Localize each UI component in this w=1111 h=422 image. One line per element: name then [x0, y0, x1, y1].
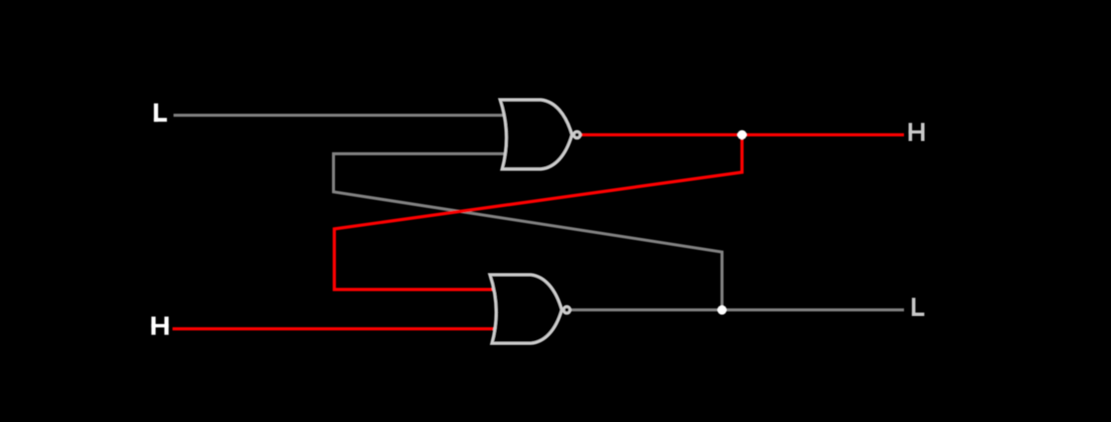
junction node Q (on red output wire)	[737, 130, 746, 139]
nor-gate U2 output bubble	[563, 307, 570, 314]
wire: input S (L) to NOR gate U1 top input	[174, 114, 507, 117]
label L (top-left input level)	[154, 103, 167, 121]
label H (top-right output level)	[909, 123, 925, 141]
wire: U1 output to Q (H, red)	[582, 133, 905, 136]
wire: feedback from U2 output to U1 bottom input (low, gray)	[334, 154, 723, 310]
label H (bottom-left input level)	[151, 317, 168, 335]
wire: feedback from U1 output to U2 top input (high, red)	[334, 135, 742, 290]
nor-gate U2 (bottom) body	[490, 275, 562, 344]
wire: input R (H) to NOR gate U2 bottom input (high, red)	[173, 327, 497, 330]
label L (bottom-right output level)	[912, 298, 924, 316]
junction node Q-bar (on gray output wire)	[717, 305, 726, 314]
nor-gate U1 output bubble	[574, 131, 581, 138]
wire: U2 output to Q-bar (L)	[571, 308, 904, 311]
nor-gate U1 (top) body	[500, 100, 572, 170]
